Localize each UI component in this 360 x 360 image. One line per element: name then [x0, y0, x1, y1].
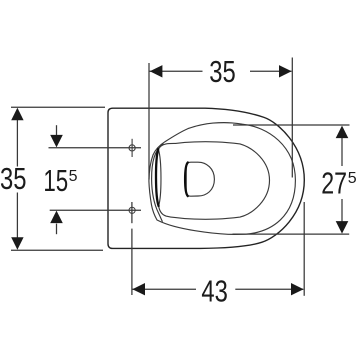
toilet outer ceramic outline [108, 108, 304, 248]
svg-text:35: 35 [209, 55, 236, 89]
dim left 35: dimension line [16, 109, 18, 167]
dim 15.5: bottom extension line [50, 209, 141, 211]
dim 15.5: up arrow [50, 211, 63, 224]
mounting hole top crosshair [129, 139, 135, 157]
dim top 35: left extension line [148, 63, 150, 180]
svg-text:5: 5 [69, 168, 78, 185]
dim 27.5: bottom extension line [233, 233, 350, 235]
water surface D-blob thick left edge [185, 163, 188, 197]
svg-text:43: 43 [201, 275, 228, 309]
dim top 35: right extension line [291, 58, 293, 178]
dim left 35: top extension line [11, 106, 105, 108]
svg-text:15: 15 [43, 164, 68, 198]
water surface D-blob outline [186, 162, 214, 196]
dim 15.5: down arrow [50, 135, 63, 148]
dim 43: left extension line (hole centerline) [131, 202, 133, 223]
dim top 35: right arrow [279, 65, 292, 77]
dim left 35: bottom extension line [11, 249, 103, 251]
dim 15.5: bottom tail [56, 224, 58, 235]
seat ring sliver arc (inside left tip of lid) [152, 144, 164, 222]
svg-text:5: 5 [348, 170, 357, 187]
dim 15.5: top tail [56, 125, 58, 135]
dim 15.5: top extension line [49, 147, 142, 149]
mounting hole bottom crosshair [129, 207, 135, 213]
dim 43: left arrow [132, 283, 145, 295]
svg-text:27: 27 [321, 167, 347, 201]
seat lid outer oval [149, 123, 296, 235]
thick rim accent arc (left of inner ring) [156, 149, 159, 206]
dim 27.5: up arrow [336, 126, 349, 139]
svg-text:35: 35 [0, 162, 27, 196]
dim top 35: left arrow [150, 65, 163, 77]
dim left 35: top arrow [11, 108, 23, 121]
dim top 35: dimension line [150, 70, 203, 72]
dim 43: dimension line [132, 288, 196, 290]
dim 27.5: top extension line [233, 124, 350, 126]
dim 43: right arrow [291, 283, 304, 295]
dim 43: right extension line [303, 202, 305, 296]
dim 27.5: down arrow [336, 221, 349, 234]
seat inner ring (D shape) [158, 142, 269, 220]
dim left 35: bottom arrow [11, 237, 23, 250]
dim 27.5: dimension line tails [341, 138, 343, 166]
